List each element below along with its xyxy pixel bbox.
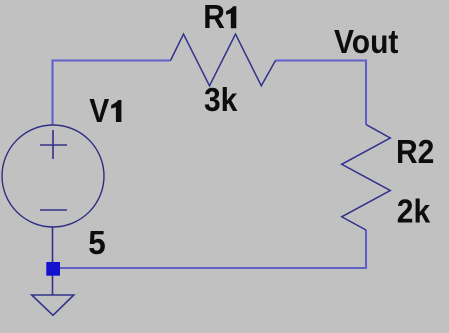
svg-text:V: V (89, 92, 109, 130)
svg-text:5: 5 (88, 224, 106, 262)
ground symbol (32, 295, 74, 315)
svg-text:R2: R2 (396, 133, 434, 171)
V1 plus sign (52, 130, 54, 159)
svg-text:R: R (203, 0, 225, 36)
V1 minus sign (40, 209, 67, 211)
resistor R1 zigzag (171, 34, 276, 86)
svg-text:3k: 3k (204, 81, 238, 119)
wire from R2 bottom down and left along bottom to node square (53, 230, 366, 268)
node junction square (net 5 / ground node) (46, 262, 60, 276)
svg-text:2k: 2k (397, 192, 431, 230)
wire from R1 right lead to Vout corner and down to R2 top (276, 61, 367, 125)
svg-text:Vout: Vout (334, 23, 399, 61)
resistor R2 zigzag (342, 125, 391, 231)
wire from node square to ground (52, 275, 54, 295)
voltage source V1 circle (2, 125, 104, 227)
wire from V1 top pin up and right to R1 left lead (53, 61, 171, 126)
wire from V1 bottom pin to node square (52, 227, 54, 263)
